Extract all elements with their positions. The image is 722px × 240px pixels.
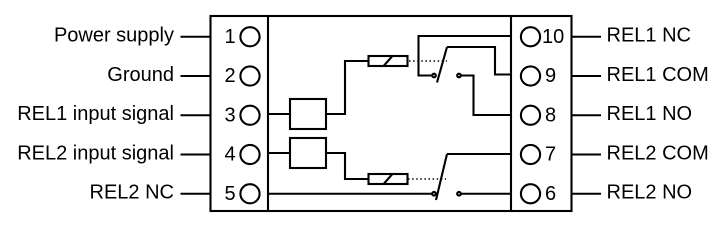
svg-text:7: 7: [545, 144, 556, 166]
svg-text:REL2 NC: REL2 NC: [90, 182, 174, 204]
svg-text:10: 10: [542, 26, 564, 48]
svg-text:REL2 NO: REL2 NO: [607, 182, 693, 204]
svg-text:4: 4: [225, 144, 236, 166]
svg-text:REL2 COM: REL2 COM: [607, 142, 709, 164]
svg-text:REL1 NO: REL1 NO: [607, 103, 693, 125]
svg-text:3: 3: [225, 104, 236, 126]
svg-text:5: 5: [225, 183, 236, 205]
svg-text:Power supply: Power supply: [54, 25, 174, 47]
svg-text:REL1 input signal: REL1 input signal: [17, 103, 174, 125]
svg-text:2: 2: [225, 65, 236, 87]
svg-text:REL1 NC: REL1 NC: [607, 25, 691, 47]
svg-text:8: 8: [545, 104, 556, 126]
svg-text:1: 1: [225, 26, 236, 48]
svg-text:6: 6: [545, 183, 556, 205]
svg-text:Ground: Ground: [107, 64, 174, 86]
svg-text:REL2 input signal: REL2 input signal: [17, 142, 174, 164]
svg-text:9: 9: [545, 65, 556, 87]
svg-text:REL1 COM: REL1 COM: [607, 64, 709, 86]
